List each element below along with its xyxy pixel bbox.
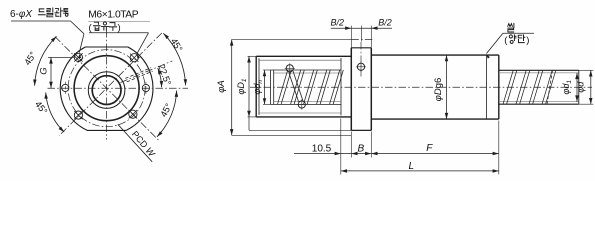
screw root lines in nut bbox=[274, 72, 341, 74]
screw shaft right section OD bbox=[499, 70, 579, 104]
side view centerline bbox=[250, 86, 592, 88]
ball return tube lower end bbox=[297, 99, 307, 109]
centerline diagonal 135deg (through upper-left and lower-right holes) bbox=[55, 37, 158, 140]
dimension B/2 left and right bbox=[331, 18, 392, 48]
cylinder (nut body D) side view bbox=[371, 55, 499, 119]
dimension phiD1 bbox=[236, 56, 256, 130]
svg-text:B/2: B/2 bbox=[331, 18, 345, 28]
screw left face in nut bbox=[270, 70, 272, 104]
side view nut left face bbox=[255, 56, 257, 117]
angle dim arc 45 bottom-right bbox=[157, 91, 177, 137]
flange outline (front view, circle with top/bottom flats) bbox=[60, 47, 153, 130]
label M6x1.0TAP (oil port) with leader bbox=[88, 10, 150, 59]
svg-text:): ) bbox=[526, 35, 529, 46]
side view nut body top/bottom bbox=[256, 55, 351, 57]
ball return tube upper end bbox=[285, 63, 295, 73]
PCD W leader and label bbox=[118, 124, 158, 162]
centerline horizontal bbox=[48, 87, 189, 89]
ball return tube body bbox=[289, 71, 303, 102]
angle dim arc 45 top-left bbox=[35, 36, 57, 85]
dimension phiD g6 bbox=[433, 55, 448, 119]
oil hole axis on flange bbox=[360, 42, 362, 78]
thread spiral right section bbox=[503, 70, 556, 104]
svg-text:6-φX: 6-φX bbox=[10, 9, 32, 20]
svg-text:L: L bbox=[409, 161, 415, 172]
angle dim arc 45 top-right bbox=[163, 33, 185, 85]
svg-text:G: G bbox=[39, 67, 50, 74]
bolt circle PCD (dash-dot) bbox=[68, 50, 145, 127]
oil port centerline 22.5deg bbox=[121, 61, 173, 83]
G dimension bbox=[39, 57, 75, 88]
svg-text:): ) bbox=[118, 23, 121, 34]
bolt hole L bbox=[62, 82, 69, 94]
bore outer circle (screw OD) bbox=[88, 72, 125, 109]
dimension phiA bbox=[216, 39, 371, 135]
screw root lines right bbox=[500, 72, 579, 74]
centerline diagonal 45deg (through upper-right and lower-left holes) bbox=[59, 33, 162, 136]
svg-text:B/2: B/2 bbox=[378, 18, 392, 28]
label seal (both ends) with leader bbox=[486, 23, 534, 58]
thread spiral left section bbox=[278, 70, 344, 104]
svg-text:B: B bbox=[357, 144, 364, 155]
thread end dashed line bbox=[547, 70, 553, 104]
centerline vertical bbox=[106, 30, 108, 140]
svg-text:φDg6: φDg6 bbox=[433, 78, 444, 102]
svg-text:φd: φd bbox=[576, 81, 586, 93]
angle dim arc 22.5 right bbox=[158, 68, 162, 87]
bolt hole TR bbox=[130, 54, 138, 62]
dimension phidn bbox=[252, 70, 271, 104]
svg-text:10.5: 10.5 bbox=[312, 144, 332, 155]
flange side view bbox=[351, 48, 371, 131]
bolt hole R bbox=[142, 82, 149, 94]
flange OD phantom line bbox=[351, 38, 372, 40]
angle dim arc 45 bottom-left bbox=[46, 93, 64, 133]
dimension phid (screw OD) bbox=[576, 70, 594, 104]
right seal groove line bbox=[486, 55, 488, 119]
svg-text:F: F bbox=[426, 143, 433, 154]
nut seal boundary line bbox=[340, 58, 342, 115]
label 6-phiX drill-through with leader bbox=[10, 8, 84, 58]
nut body circle D1 (front view) bbox=[74, 56, 139, 121]
bolt hole BR bbox=[129, 110, 137, 118]
bore inner circle bbox=[92, 76, 121, 105]
dimension L bbox=[341, 161, 499, 173]
svg-text:M6×1.0TAP: M6×1.0TAP bbox=[88, 10, 138, 21]
dimension phid1 (root dia) bbox=[561, 73, 579, 102]
svg-text:φA: φA bbox=[216, 80, 227, 93]
oil port hole at 22.5deg (hidden lines) bbox=[125, 68, 152, 82]
dimension line 10.5 / B / F bbox=[294, 119, 499, 175]
bolt hole BL bbox=[74, 111, 82, 119]
oil hole on flange side view bbox=[356, 62, 366, 72]
screw OD lines in nut bbox=[271, 69, 341, 71]
bolt hole TL bbox=[74, 53, 82, 61]
